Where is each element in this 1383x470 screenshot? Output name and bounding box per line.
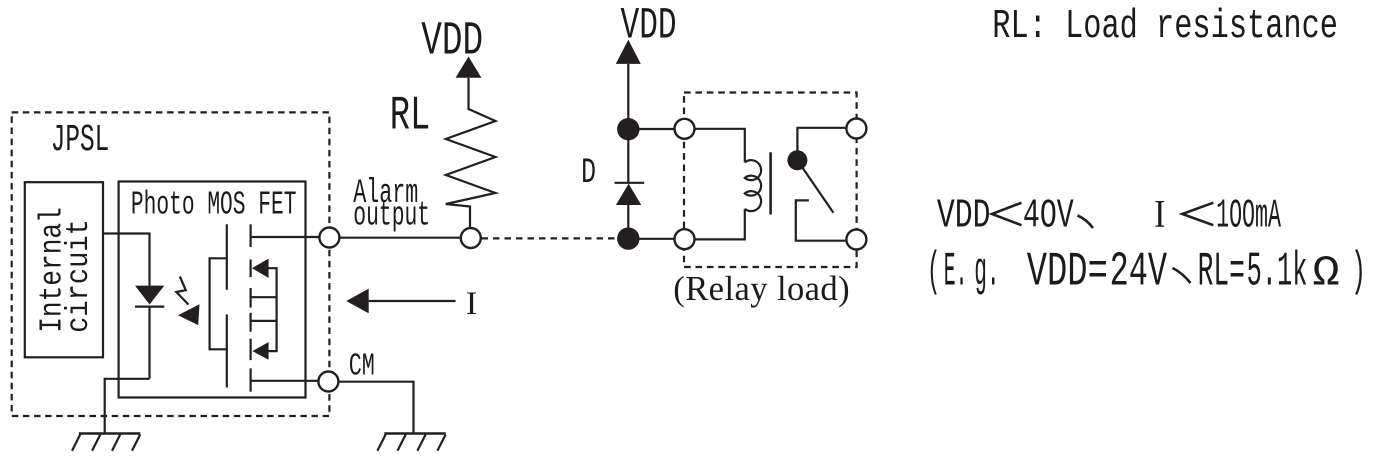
svg-text:CM: CM	[349, 350, 375, 385]
light emission arrow head	[178, 304, 200, 325]
wire diode anode to node2	[627, 205, 629, 239]
relay core bar	[769, 152, 772, 214]
svg-text:Photo MOS FET: Photo MOS FET	[131, 186, 297, 223]
ground symbol left bar	[79, 432, 140, 435]
VDD arrow left	[456, 57, 482, 78]
gate coupling bracket	[210, 258, 227, 349]
svg-text:RL: RL	[390, 90, 431, 144]
wire internal circuit to LED anode	[103, 234, 150, 286]
svg-text:VDD=: VDD=	[1027, 246, 1108, 300]
optocoupler JPSL dashed box	[12, 112, 330, 416]
ideographic comma 2	[1173, 268, 1191, 283]
svg-text:VDD: VDD	[421, 16, 483, 69]
svg-text:I: I	[1154, 193, 1165, 236]
diode D cathode bar	[615, 182, 645, 184]
wire LED return jog to ground	[105, 379, 150, 434]
wire VDD to node1	[627, 64, 629, 129]
channel tick T4	[250, 313, 252, 332]
ground symbol right hatches	[377, 435, 445, 451]
wire CM to ground	[328, 382, 413, 434]
svg-text:(: (	[927, 246, 941, 300]
internal circuit block	[25, 182, 103, 357]
wire coil bottom	[685, 209, 745, 240]
svg-text:D: D	[581, 152, 596, 193]
source stub upper	[251, 296, 277, 298]
resistor RL zigzag	[446, 78, 496, 238]
relay coil	[745, 160, 761, 211]
svg-text:g.: g.	[974, 246, 999, 300]
junction dot node2	[617, 227, 639, 249]
junction dot node1	[617, 118, 639, 140]
svg-text:Ω: Ω	[1313, 249, 1340, 298]
ideographic comma 1	[1078, 216, 1094, 229]
svg-text:5.1k: 5.1k	[1247, 246, 1308, 300]
CM terminal circle	[318, 372, 338, 392]
source connector vertical	[268, 268, 276, 351]
drain tap top wire to alarm terminal	[251, 236, 330, 238]
alarm output terminal circle	[319, 228, 339, 248]
switch common dot	[787, 150, 807, 170]
wire alarm terminal to resistor	[329, 237, 470, 239]
wire switch top	[797, 128, 856, 151]
diode D triangle	[616, 184, 641, 205]
current arrow I shaft	[369, 300, 456, 302]
LED D1 triangle	[135, 286, 164, 305]
channel tick T5	[250, 339, 252, 360]
current arrow I head	[346, 289, 368, 314]
LED D1 cathode bar	[135, 306, 164, 308]
resistor bottom terminal circle	[461, 228, 481, 248]
svg-text:circuit: circuit	[62, 219, 97, 333]
svg-text:JPSL: JPSL	[51, 120, 110, 162]
ground symbol left hatches	[72, 435, 140, 451]
wire node2 to relay coil minus	[628, 238, 684, 240]
body arrow lower	[252, 342, 268, 360]
MOSFET gate plate lower	[226, 314, 228, 387]
svg-text:E.: E.	[944, 246, 968, 300]
source stub lower	[251, 320, 277, 322]
body arrow upper	[252, 259, 269, 278]
switch fixed contact	[796, 200, 857, 240]
light emission arrow shaft	[176, 277, 188, 305]
svg-text:24V: 24V	[1110, 246, 1168, 300]
svg-text:RL=: RL=	[1198, 246, 1245, 300]
dashed wire resistor terminal to diode node	[482, 237, 618, 239]
svg-text:): )	[1351, 246, 1366, 300]
drain tap bottom wire to CM terminal	[251, 380, 329, 382]
note less-than sign 1	[992, 203, 1022, 226]
channel tick T1	[250, 224, 252, 247]
wire node1 to relay coil plus	[628, 128, 684, 130]
wire coil top	[685, 129, 745, 163]
channel tick T6	[250, 368, 252, 391]
channel tick T3	[250, 288, 252, 308]
wire LED cathode down	[148, 307, 150, 379]
svg-text:output: output	[353, 198, 430, 236]
svg-text:1OOmA: 1OOmA	[1216, 194, 1281, 240]
svg-text:(Relay load): (Relay load)	[673, 270, 849, 308]
svg-text:RL: Load resistance: RL: Load resistance	[992, 4, 1338, 50]
svg-text:VDD: VDD	[937, 194, 991, 240]
relay terminal circle top-right	[846, 119, 866, 139]
relay terminal circle top-left	[675, 119, 695, 139]
relay terminal circle bottom-right	[846, 230, 866, 250]
note less-than sign 2	[1182, 203, 1213, 226]
svg-text:I: I	[466, 286, 477, 322]
svg-text:4OV: 4OV	[1023, 194, 1074, 240]
VDD arrow middle	[616, 40, 641, 64]
relay terminal circle bottom-left	[675, 229, 695, 249]
relay dashed box	[684, 93, 857, 268]
channel tick T2	[250, 260, 252, 278]
wire node1 to diode cathode	[627, 129, 629, 183]
MOSFET gate plate upper	[226, 224, 228, 289]
ground symbol right bar	[384, 432, 445, 435]
switch moving contact	[797, 160, 833, 212]
photo MOS FET inner box	[119, 182, 306, 398]
